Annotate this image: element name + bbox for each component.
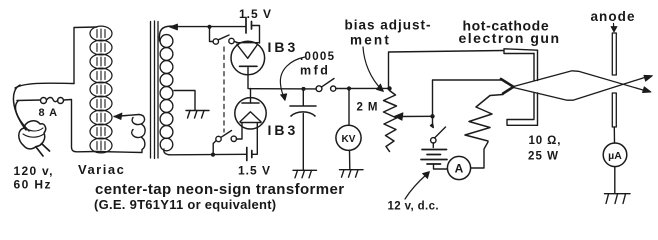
svg-text:2 M: 2 M [357,102,379,114]
wire center tap to ground [174,91,195,111]
resistor R1 2M potentiometer [384,91,397,152]
svg-text:25 W: 25 W [528,151,559,163]
ground KV meter [340,170,364,178]
electron gun grid cup [504,49,538,126]
svg-text:µA: µA [608,150,622,162]
svg-text:(G.E. 9T61Y11 or equivalent): (G.E. 9T61Y11 or equivalent) [94,197,276,212]
transformer core [151,21,159,159]
wire bias junction up to grid cup [389,51,504,89]
wire vertical to variac top [74,27,97,84]
capacitor C1 .0005 mfd [290,89,316,170]
svg-text:Variac: Variac [78,162,125,177]
arrow 12v to battery [405,172,430,200]
tube V1 1B3 top [231,41,265,88]
wire upper line cord to variac [15,83,74,88]
anode electrode [612,33,616,127]
switch S1 [213,35,237,44]
variac wiper arrow [114,113,139,120]
resistor R2 10 ohm [465,96,492,142]
wire uA meter to ground [614,167,616,194]
svg-text:120 v,: 120 v, [14,164,54,178]
wire wiper junction to cathode [433,80,514,116]
cathode filament tip [501,79,514,94]
cord [13,85,29,131]
svg-text:electron gun: electron gun [459,30,561,46]
svg-text:IB3: IB3 [268,39,299,55]
svg-text:1.5 V: 1.5 V [239,7,272,21]
ground uA meter [605,194,631,204]
node junction dot bottom rail [211,153,215,157]
arrow mfd to capacitor [280,57,305,101]
svg-text:8 A: 8 A [39,107,59,119]
meter M2 ammeter A [447,142,488,180]
node cap junction [302,87,306,91]
wire variac bottom to primary [96,152,142,153]
wire secondary top to HV top rail [170,24,246,30]
ground capacitor [293,170,317,178]
arrow anode label [611,24,617,33]
svg-text:60 Hz: 60 Hz [14,178,52,192]
fuse F1 8A [41,98,64,104]
wire lower fuse line [17,99,41,102]
tube V2 1B3 bottom [235,89,266,130]
wiper arrow 2M [395,113,433,121]
wire anode to uA meter [613,127,615,143]
switch S2 [213,124,242,154]
wire HV rail right [336,87,390,89]
node wiper junction dot [430,114,434,118]
svg-text:anode: anode [591,9,636,24]
wire junction to switch S1 [210,27,214,42]
switch S3 [431,118,446,148]
wire secondary bottom rail [164,149,247,155]
arrow bias adjustment [363,47,384,92]
wire HV rail left [249,88,316,90]
svg-text:bias adjust-: bias adjust- [345,18,432,33]
svg-text:1.5 V: 1.5 V [238,164,271,178]
meter M3 microammeter [603,143,627,167]
transformer primary winding [132,115,145,153]
electron beam envelope [514,71,653,100]
battery B3 12V [421,150,448,170]
svg-text:A: A [455,162,464,176]
transformer secondary winding [159,26,174,151]
svg-text:mfd: mfd [300,64,330,78]
svg-text:12 v, d.c.: 12 v, d.c. [388,201,439,213]
ground center tap [186,111,209,119]
svg-text:KV: KV [342,134,356,145]
gang dashed link [223,47,225,132]
plug P1 [19,121,50,156]
battery B2 1.5V bottom [247,124,257,161]
svg-text:center-tap neon-sign transform: center-tap neon-sign transformer [95,181,345,198]
node bias junction [387,86,391,90]
svg-text:10 Ω,: 10 Ω, [529,135,562,147]
variac T1 coil [90,26,112,153]
svg-text:ment: ment [350,33,391,48]
wire fuse to variac bottom [64,100,97,152]
node junction dot top [207,25,211,29]
wire resistor to cathode lower lead [490,95,503,96]
meter M1 KV [336,89,361,170]
switch S4 HV [316,79,336,92]
battery B1 1.5V top [246,18,260,44]
node KV junction [347,86,351,90]
svg-text:IB3: IB3 [268,122,299,138]
